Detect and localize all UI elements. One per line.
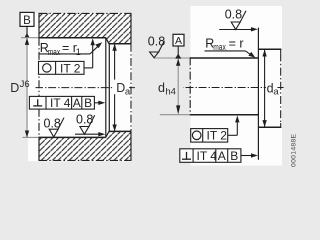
right figure white canvas [191,6,283,166]
housing left break line (chain) [38,38,40,138]
svg-text:A: A [73,96,81,110]
svg-text:B: B [230,149,238,163]
housing right edge solid segments [130,13,132,44]
dimension Da (left) [112,44,130,132]
perpendicularity frame IT4 A B (left) [29,96,105,110]
shaft seat surface (top) [154,57,191,59]
housing upper section hatch [39,13,131,43]
svg-text:= r: = r [62,41,77,55]
roughness 0.8 on shoulder face leader (left) [75,113,105,137]
shaft bottom surface [160,114,190,116]
svg-text:h4: h4 [165,87,176,98]
shoulder surface line (lower) [106,131,109,137]
shoulder right break line (chain) [280,49,282,54]
svg-text:0.8: 0.8 [225,7,242,21]
svg-text:d: d [158,81,165,95]
svg-text:0.8: 0.8 [148,34,165,48]
housing bottom break line (chain) [39,159,131,161]
dimension da [262,50,279,127]
dimension d h4 [158,59,180,115]
svg-text:D: D [10,81,19,95]
shoulder face edge line [257,28,259,160]
svg-text:A: A [175,35,182,47]
svg-text:B: B [84,96,92,110]
shaft shoulder top edge [258,48,281,50]
fillet callout Rmax = r [205,36,256,58]
roundness frame O IT2 (left) [39,38,95,75]
housing right break line (chain) [130,44,132,132]
svg-text:1: 1 [76,47,81,57]
svg-text:a: a [125,86,131,97]
svg-text:B: B [23,15,31,27]
shoulder face edge line [105,38,107,138]
shoulder bore edge line [108,44,110,132]
svg-text:a: a [273,87,279,98]
roughness 0.8 on shaft seat [148,34,165,57]
svg-text:IT 4: IT 4 [50,96,71,110]
svg-text:IT 2: IT 2 [60,61,81,75]
bore axis centerline [36,87,136,89]
svg-text:A: A [218,149,226,163]
datum B symbol [20,12,34,38]
page background [0,0,302,176]
shoulder surface line (upper) [106,38,109,44]
roughness 0.8 on shoulder face (top right) [219,7,258,31]
perpendicularity frame IT4 A B (right) [180,149,258,163]
datum A symbol [173,34,184,58]
fillet callout Rmax = r1 [39,41,102,57]
svg-text:IT 2: IT 2 [207,129,228,143]
housing lower section hatch [39,131,131,160]
svg-text:0.8: 0.8 [76,113,93,127]
roughness 0.8 on bore surface (left) [44,117,65,137]
roundness frame O IT2 (right) [191,116,240,143]
bore surface line (upper) [38,37,105,39]
housing left edge solid segments [38,13,40,38]
svg-text:0001488E: 0001488E [291,133,298,167]
shaft left break line (chain) [189,57,191,115]
shaft axis centerline [184,87,284,89]
dimension D J6 [10,38,38,138]
housing top break line (chain) [39,12,131,14]
left figure white canvas [28,13,132,161]
svg-text:J6: J6 [20,79,30,90]
shaft shoulder bottom edge [258,126,281,128]
svg-text:= r: = r [229,36,244,50]
svg-text:max: max [48,47,61,57]
svg-text:IT 4: IT 4 [197,149,218,163]
bore surface line (lower) [38,136,105,138]
